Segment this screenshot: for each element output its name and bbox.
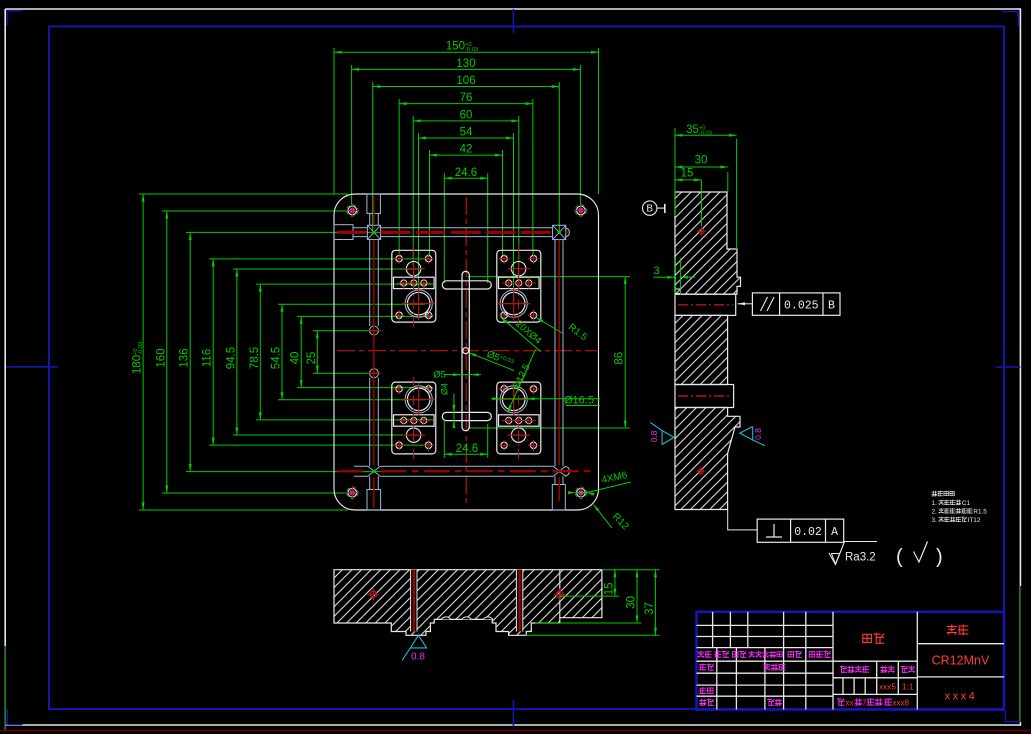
svg-text:C1: C1 [962, 500, 971, 507]
leader from 15 to hole [700, 180, 702, 226]
dimension 160 left [162, 210, 358, 212]
channel horizontal upper [353, 228, 553, 237]
title block grid lines [697, 612, 1005, 710]
svg-text:78.5: 78.5 [249, 347, 261, 369]
roughness 0.8 right side [740, 427, 765, 446]
bottom section divider line [559, 570, 561, 618]
svg-text:130: 130 [456, 58, 475, 70]
channel top stub [367, 194, 381, 214]
dimension 94.5 left [233, 268, 421, 270]
svg-text:116: 116 [202, 349, 214, 367]
bottom section red hole left [370, 591, 376, 597]
junction X lower-right [553, 466, 566, 477]
side view slot band lower [675, 385, 734, 408]
svg-text:0.8: 0.8 [411, 652, 425, 663]
svg-text:xx: xx [846, 698, 854, 707]
svg-text:30: 30 [626, 596, 638, 609]
channel bottom tab left [367, 490, 381, 511]
parallelism tolerance frame [752, 293, 840, 315]
svg-text:160: 160 [155, 348, 167, 367]
svg-text:1.: 1. [932, 500, 938, 507]
svg-text:60: 60 [460, 109, 473, 121]
svg-text:1:1: 1:1 [902, 683, 914, 692]
svg-text:B: B [646, 204, 653, 215]
bottom section hole 2 [516, 570, 522, 632]
centering tick top [512, 9, 514, 33]
svg-text:R1.5: R1.5 [973, 509, 987, 516]
centering tick left [6, 366, 58, 368]
mounting block upper-right [497, 250, 541, 322]
channel vertical upper segment [370, 213, 379, 225]
svg-text:3: 3 [653, 265, 659, 277]
channel left tab upper [334, 225, 353, 240]
svg-text:xxx5: xxx5 [879, 683, 896, 692]
side view hole lower [699, 469, 704, 474]
svg-text:106: 106 [456, 75, 475, 87]
svg-text:94.5: 94.5 [225, 347, 237, 369]
bottom section platform bumps [441, 617, 493, 620]
dimension 37 bottom view [526, 634, 660, 636]
outer border green segment left [4, 646, 6, 731]
dimension diameter 5 center [444, 374, 481, 376]
channel bottom tab right [552, 485, 565, 511]
dimension 25 left [313, 330, 378, 332]
channel red centerline horizontal lower [337, 470, 367, 472]
bottom section hole 1 [411, 570, 417, 632]
dimension 15 side [675, 179, 701, 181]
dimension 78.5 left [256, 283, 433, 285]
mounting block lower-right [497, 382, 541, 454]
corner hole M6 top-left [348, 206, 357, 215]
mounting block upper-left [392, 250, 436, 322]
svg-text:): ) [936, 546, 943, 568]
svg-text:136: 136 [179, 348, 191, 367]
side view slot band upper [675, 294, 736, 315]
part outline main view [334, 194, 599, 510]
corner hole M6 bottom-left [348, 488, 357, 497]
leader diameter 16.5 [491, 398, 600, 400]
title block school name [947, 625, 956, 634]
svg-text:24.6: 24.6 [455, 167, 477, 179]
dimension 24.6 top [443, 173, 445, 283]
dimension 42 top [429, 150, 431, 256]
svg-text:7: 7 [862, 698, 867, 707]
svg-text:15: 15 [603, 583, 615, 596]
channel horizontal lower [354, 466, 553, 476]
svg-text:54.5: 54.5 [271, 347, 283, 369]
svg-text:A: A [831, 526, 838, 539]
bottom section outline and hatch [334, 570, 602, 636]
svg-text:42: 42 [460, 144, 473, 156]
mounting block lower-left [392, 382, 436, 454]
svg-text:0.8: 0.8 [649, 430, 659, 442]
svg-text:40: 40 [290, 352, 302, 365]
svg-text:Ø4: Ø4 [440, 383, 450, 395]
channel red centerline horizontal upper [337, 231, 367, 234]
bottom section red hole right [557, 591, 563, 597]
title block outer frame [697, 612, 1005, 710]
channel end circle upper [370, 326, 379, 335]
svg-text:3.: 3. [932, 517, 938, 524]
channel vertical lower segment [370, 378, 379, 467]
svg-text:2.: 2. [932, 509, 938, 516]
leader 4XM6 [576, 492, 587, 494]
channel red centerline vertical right [558, 240, 560, 465]
junction square upper-left [367, 225, 380, 239]
title block header labels [698, 651, 704, 657]
channel end circle lower [370, 369, 379, 378]
svg-text:0.02: 0.02 [794, 526, 822, 539]
roughness 0.8 bottom view [402, 635, 427, 660]
svg-text:Ø16.5: Ø16.5 [564, 395, 594, 407]
leader diameter 5 +0.03 [471, 353, 515, 370]
centerline vertical main [465, 197, 467, 507]
junction X lower-left [368, 466, 381, 477]
perpendicularity leader [728, 510, 758, 530]
dimension 106 top [372, 82, 374, 230]
svg-text:54: 54 [460, 127, 473, 139]
channel right vertical [555, 240, 563, 467]
roughness 0.8 left side [650, 422, 674, 444]
svg-text:76: 76 [460, 92, 473, 104]
dimension 150 top [333, 48, 335, 194]
centerline horizontal main [337, 350, 597, 352]
title block part name [863, 634, 872, 642]
side view hatch region middle [675, 315, 728, 384]
center slot bar top [442, 281, 491, 289]
dimension 35 side [674, 128, 676, 216]
perpendicularity tolerance frame [757, 519, 844, 542]
center slot vertical [462, 271, 469, 430]
svg-text:25: 25 [306, 352, 318, 365]
parallelism leader [738, 303, 753, 305]
leader diameter 12.5 [508, 350, 536, 413]
dimension 54.5 left [278, 303, 425, 305]
dimension 40 left [297, 315, 433, 317]
leader R1.5 [536, 318, 563, 334]
dimension 30 side [727, 172, 729, 192]
svg-text:CR12MnV: CR12MnV [932, 654, 990, 668]
side view left edge notch [675, 289, 680, 294]
svg-text:30: 30 [695, 155, 708, 167]
svg-text:Ra3.2: Ra3.2 [845, 552, 876, 564]
trim mark bottom-left [7, 709, 22, 725]
svg-text:24.6: 24.6 [456, 443, 478, 455]
svg-text:0.8: 0.8 [753, 428, 763, 440]
svg-text:0.025: 0.025 [784, 300, 819, 313]
dimension 130 top [351, 65, 353, 205]
dimension 30 bottom view [535, 622, 642, 624]
center circle [463, 348, 469, 354]
centering tick bottom [512, 700, 514, 727]
bottom dark red line [0, 730, 1031, 732]
corner hole M6 bottom-right [577, 488, 586, 497]
technical notes text [932, 491, 937, 496]
centering tick right [996, 366, 1021, 368]
dimension 106 left [209, 258, 433, 260]
dimension 15 bottom view [560, 595, 619, 597]
trim mark top-left [7, 11, 23, 25]
surface finish Ra3.2 symbol [829, 542, 877, 565]
svg-text:86: 86 [614, 352, 626, 365]
dimension 76 top [398, 99, 400, 256]
junction square upper-right [553, 225, 566, 239]
leader R12 [594, 505, 613, 529]
dimension 3 side [679, 258, 681, 295]
dimension 86 right [468, 276, 630, 278]
center slot bar bottom [442, 412, 491, 420]
dimension 60 top [412, 116, 414, 266]
side view hatch region bottom [675, 408, 740, 510]
dimension diameter 4 center [453, 394, 455, 427]
datum B symbol [643, 201, 657, 215]
dimension 180 left [139, 193, 348, 195]
svg-text:Ø5: Ø5 [433, 370, 446, 381]
channel red centerline vertical left [373, 196, 375, 225]
svg-text:IT12: IT12 [968, 517, 981, 524]
dimension 54 top [418, 133, 420, 300]
side view hatch region top [675, 192, 741, 294]
outer border green segment right [1019, 586, 1021, 722]
dimension 24.6 bottom [443, 420, 445, 458]
svg-text:xxx8: xxx8 [893, 698, 910, 707]
svg-text:15: 15 [681, 168, 694, 180]
svg-text:xxx4: xxx4 [945, 691, 978, 703]
trim mark bottom-right [1006, 710, 1021, 722]
side view hole upper [699, 229, 704, 234]
svg-text:37: 37 [644, 602, 656, 615]
dimension 136 left [186, 231, 385, 233]
svg-text:(: ( [896, 546, 903, 568]
leader 20X diameter 4 [501, 317, 542, 352]
svg-text:B: B [828, 300, 835, 313]
trim mark top-right [1002, 12, 1018, 27]
corner hole M6 top-right [577, 206, 586, 215]
